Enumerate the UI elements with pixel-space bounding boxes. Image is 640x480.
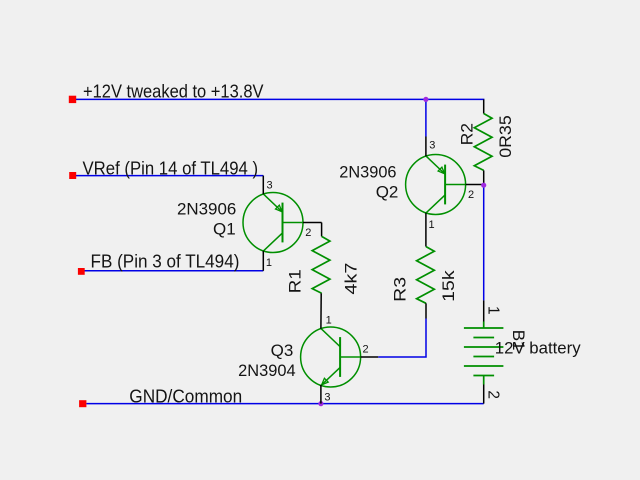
svg-text:Q3: Q3 bbox=[271, 341, 294, 360]
resistor R2 zigzag bbox=[474, 114, 492, 171]
svg-text:2N3906: 2N3906 bbox=[177, 199, 236, 218]
Q2 emitter arrowhead bbox=[438, 167, 445, 174]
Q1 pin 1 lead bbox=[262, 251, 264, 271]
svg-text:2: 2 bbox=[305, 227, 311, 239]
transistor Q2 2N3906 (PNP) bbox=[406, 155, 466, 215]
svg-text:VRef (Pin 14 of TL494 ): VRef (Pin 14 of TL494 ) bbox=[83, 157, 259, 178]
wire Q3 base to R3 bottom bbox=[378, 319, 426, 358]
Q3 body circle bbox=[301, 327, 361, 387]
wire Q2 base node down to battery bbox=[483, 185, 485, 300]
terminal +12V (red) bbox=[69, 96, 76, 103]
battery B1 plate 5 (long) bbox=[464, 365, 504, 367]
battery B1 pin 1 lead bbox=[483, 300, 485, 321]
svg-text:1: 1 bbox=[429, 219, 435, 231]
wire net FB bbox=[84, 270, 263, 272]
battery B1 pin 2 lead bbox=[483, 385, 485, 404]
Q1 base bar bbox=[282, 203, 284, 243]
battery B1 top stub bbox=[483, 322, 485, 329]
transistor Q3 2N3904 (NPN) bbox=[301, 327, 361, 387]
Q3 pin 2 lead bbox=[361, 356, 379, 358]
svg-text:2N3906: 2N3906 bbox=[339, 162, 396, 181]
Q3 pin 3 lead bbox=[320, 385, 322, 404]
Q1 base lead inside bbox=[283, 222, 304, 224]
Q2 pin 1 lead (joins R3 top) bbox=[425, 213, 427, 247]
battery B1 bottom stub bbox=[483, 376, 485, 385]
Q1 pin 2 lead bbox=[303, 222, 322, 224]
svg-text:0R35: 0R35 bbox=[496, 115, 515, 158]
terminal VRef (red) bbox=[69, 172, 76, 179]
svg-text:GND/Common: GND/Common bbox=[129, 386, 242, 407]
Q3 pin 1 lead (joins R1 bottom) bbox=[320, 294, 322, 329]
junction +12V / Q2 branch bbox=[423, 97, 428, 102]
resistor R1 zigzag bbox=[312, 236, 330, 293]
battery B1 plate 3 (long) bbox=[464, 346, 504, 348]
Q1 emitter arrowhead bbox=[276, 205, 283, 212]
Q3 collector line bbox=[321, 328, 340, 346]
svg-text:2: 2 bbox=[485, 390, 502, 399]
svg-text:2: 2 bbox=[468, 189, 474, 201]
svg-text:3: 3 bbox=[267, 179, 273, 191]
svg-text:R1: R1 bbox=[286, 269, 305, 293]
Q3 emitter line bbox=[322, 367, 341, 385]
junction GND / Q3 emitter bbox=[318, 401, 323, 406]
svg-text:2: 2 bbox=[363, 344, 369, 356]
resistor R1 top lead (from Q1 pin2 corner) bbox=[321, 223, 323, 237]
battery B1 plate 2 (short) bbox=[473, 337, 494, 339]
Q3 base lead inside bbox=[340, 356, 361, 358]
Q2 base lead inside bbox=[445, 184, 466, 186]
Q1 pin 3 lead bbox=[262, 176, 264, 195]
wire net +12V horizontal bbox=[76, 98, 484, 100]
transistor Q1 2N3906 (PNP) bbox=[243, 193, 303, 253]
resistor R2 bottom lead bbox=[483, 170, 485, 185]
svg-text:2N3904: 2N3904 bbox=[238, 361, 296, 380]
svg-text:3: 3 bbox=[429, 140, 435, 152]
svg-text:15k: 15k bbox=[439, 270, 458, 302]
svg-text:1: 1 bbox=[266, 257, 272, 269]
wire net VRef bbox=[76, 175, 263, 177]
svg-text:1: 1 bbox=[326, 314, 332, 326]
svg-text:3: 3 bbox=[324, 391, 330, 403]
Q1 body circle bbox=[243, 193, 303, 253]
svg-text:1: 1 bbox=[485, 306, 502, 315]
Q3 base bar bbox=[339, 337, 341, 377]
svg-text:R3: R3 bbox=[390, 277, 409, 302]
resistor R3 bottom lead bbox=[425, 303, 427, 318]
terminal GND (red) bbox=[79, 400, 86, 407]
svg-text:4k7: 4k7 bbox=[342, 263, 361, 295]
wire net GND/Common bbox=[86, 403, 483, 405]
battery B1 plate 6 (short) bbox=[473, 375, 494, 377]
svg-text:FB (Pin 3 of TL494): FB (Pin 3 of TL494) bbox=[91, 251, 240, 272]
Q1 emitter line bbox=[263, 194, 282, 212]
svg-text:+12V tweaked to +13.8V: +12V tweaked to +13.8V bbox=[83, 80, 264, 101]
Q2 pin 2 lead bbox=[466, 184, 484, 186]
svg-text:Q2: Q2 bbox=[376, 183, 399, 202]
Q2 pin 3 lead bbox=[425, 137, 427, 157]
svg-text:12V battery: 12V battery bbox=[495, 339, 581, 358]
terminal FB (red) bbox=[78, 268, 85, 275]
battery B1 plate 4 (short) bbox=[473, 356, 494, 358]
svg-text:R2: R2 bbox=[458, 123, 477, 145]
battery B1 plate 1 (long) bbox=[464, 327, 504, 329]
svg-text:Q1: Q1 bbox=[213, 219, 236, 238]
junction Q2 base / R2 / battery bbox=[481, 183, 486, 188]
resistor R1 bottom lead bbox=[320, 292, 322, 295]
Q2 emitter line bbox=[426, 156, 445, 174]
resistor R2 top lead (from +12V corner) bbox=[483, 99, 485, 113]
resistor R3 zigzag bbox=[417, 247, 435, 304]
Q2 collector line bbox=[426, 195, 445, 213]
Q3 emitter arrowhead bbox=[322, 378, 329, 385]
wire +12V branch down to Q2 emitter bbox=[425, 99, 427, 136]
Q2 base bar bbox=[444, 165, 446, 205]
Q2 body circle bbox=[406, 155, 466, 215]
Q1 collector line bbox=[263, 233, 282, 251]
